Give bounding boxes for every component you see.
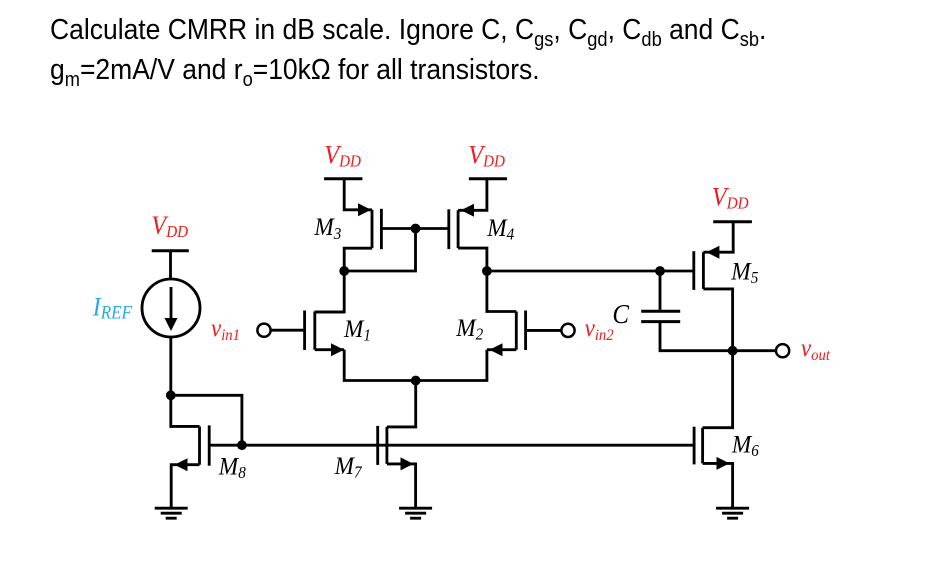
input terminal vin2 — [561, 324, 574, 337]
transistor M3 — [358, 203, 416, 249]
input terminal vin1 — [257, 324, 270, 337]
wire output node down to M6 drain — [703, 351, 733, 428]
svg-text:M4: M4 — [486, 214, 514, 244]
ground under M8 — [155, 508, 188, 518]
ground under M6 — [716, 508, 749, 518]
svg-text:C: C — [612, 299, 629, 329]
wire M2 source to tail node — [416, 350, 487, 381]
transistor M4 — [449, 204, 474, 249]
svg-text:M3: M3 — [313, 213, 341, 243]
output terminal vout — [776, 344, 789, 357]
wire VDD to IREF source top — [169, 251, 172, 280]
svg-text:M8: M8 — [218, 453, 246, 483]
wire node B down to M2 drain — [487, 271, 516, 312]
wire vin1 to M1 gate — [271, 329, 305, 332]
wire VDD down to M4 source — [458, 179, 487, 211]
node tail (M1/M2 sources) — [411, 376, 421, 386]
current source IREF — [142, 279, 200, 337]
transistor M7 — [378, 426, 416, 508]
wire gate node to M4 gate — [416, 227, 449, 230]
wire tail node down to M7 drain — [387, 381, 416, 427]
wire VDD down to M3 source — [344, 179, 372, 210]
wire mirror node down to M1 drain — [315, 271, 344, 312]
svg-text:vin2: vin2 — [585, 315, 614, 344]
node M3/M4 gates — [411, 224, 421, 234]
svg-text:M1: M1 — [343, 315, 371, 345]
svg-text:M5: M5 — [730, 258, 758, 288]
wire node B to M5 gate — [487, 270, 694, 273]
wire M3 drain down to mirror node — [344, 248, 372, 271]
power VDD bar over M5 — [713, 220, 752, 223]
svg-text:VDD: VDD — [712, 182, 749, 213]
wire M4 drain down to node B — [458, 248, 487, 271]
node M3 drain — [339, 266, 349, 276]
svg-text:M7: M7 — [334, 452, 363, 482]
transistor M1 — [305, 311, 345, 357]
power VDD bar over IREF — [152, 249, 189, 252]
wire gate node down to mirror node (diode connection) — [344, 229, 415, 272]
svg-text:IREF: IREF — [92, 294, 132, 323]
power VDD bar over M3 — [324, 177, 362, 180]
power VDD bar over M4 — [469, 177, 507, 180]
wire output node to terminal — [733, 349, 776, 352]
svg-text:M2: M2 — [455, 314, 483, 344]
node B (M4 drain) — [482, 266, 492, 276]
wire M1 source to tail node — [344, 350, 416, 381]
svg-text:VDD: VDD — [151, 210, 188, 241]
transistor M8 — [171, 425, 209, 508]
wire IREF bottom to node A — [169, 337, 172, 395]
transistor M2 — [487, 311, 561, 357]
wire node A to M8 gate (diode connection) — [171, 395, 242, 445]
svg-text:VDD: VDD — [324, 140, 361, 171]
transistor M5 — [694, 246, 720, 290]
svg-text:vin1: vin1 — [211, 315, 240, 344]
node M8 gate junction — [237, 440, 247, 450]
gate bus wire M8-M7-M6 — [209, 444, 694, 447]
wire M5 drain down to output node — [703, 289, 732, 351]
ground under M7 — [399, 508, 432, 518]
node output — [728, 346, 738, 356]
wire VDD down to M5 source — [703, 222, 733, 253]
transistor M6 — [694, 427, 733, 508]
wire node A down to M8 drain — [171, 395, 200, 426]
svg-text:vout: vout — [801, 335, 831, 364]
svg-text:M6: M6 — [731, 430, 759, 460]
svg-text:VDD: VDD — [468, 140, 505, 171]
capacitor C — [641, 271, 732, 351]
node capacitor tap — [655, 266, 665, 276]
node A (IREF / M8 drain junction) — [166, 390, 176, 400]
